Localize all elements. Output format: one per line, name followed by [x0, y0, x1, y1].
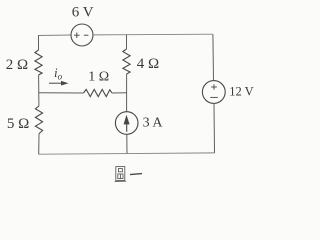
wire left branch middle [38, 75, 40, 106]
svg-text:5 Ω: 5 Ω [7, 116, 29, 132]
wire middle branch top [126, 35, 128, 49]
voltage source 6V [71, 24, 93, 46]
svg-text:12 V: 12 V [229, 85, 253, 99]
wire left branch top [38, 36, 40, 51]
svg-text:6 V: 6 V [72, 4, 94, 20]
resistor 4Ω [123, 49, 130, 74]
i_o arrow [49, 81, 69, 86]
wire top-right segment [93, 33, 213, 36]
svg-text:3 A: 3 A [143, 115, 164, 130]
wire left branch bottom [38, 134, 40, 155]
svg-text:4 Ω: 4 Ω [137, 56, 159, 72]
wire right branch lower [213, 103, 216, 153]
svg-text:1 Ω: 1 Ω [88, 69, 109, 84]
resistor 1Ω [84, 89, 113, 96]
resistor 5Ω [35, 106, 42, 134]
svg-text:2 Ω: 2 Ω [6, 57, 28, 73]
caption dash (one) [130, 174, 142, 175]
wire right branch upper [212, 34, 215, 80]
wire middle branch bottom [126, 134, 128, 153]
wire middle horizontal left [39, 92, 84, 94]
wire middle horizontal right [112, 92, 127, 94]
wire middle branch mid [126, 74, 128, 112]
caption figure character [115, 167, 127, 182]
current source 3A [115, 112, 138, 135]
wire top-left segment [38, 34, 71, 37]
wire bottom [39, 153, 215, 154]
resistor 2Ω [35, 50, 42, 75]
voltage source 12V [202, 81, 225, 104]
